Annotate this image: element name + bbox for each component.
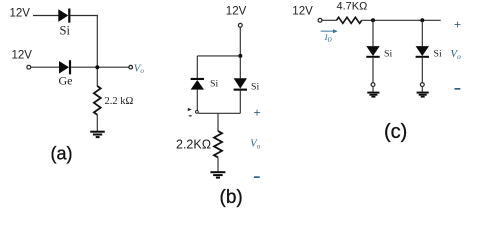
svg-text:(a): (a) — [51, 144, 73, 164]
svg-text:Si: Si — [210, 79, 218, 90]
svg-text:Vo: Vo — [250, 139, 260, 151]
svg-text:2.2 kΩ: 2.2 kΩ — [105, 96, 134, 107]
svg-text:+: + — [454, 18, 461, 32]
svg-text:(c): (c) — [384, 121, 407, 143]
svg-text:4.7KΩ: 4.7KΩ — [337, 1, 368, 13]
svg-text:12V: 12V — [292, 6, 313, 18]
svg-text:12V: 12V — [226, 6, 247, 18]
svg-text:Si: Si — [384, 48, 392, 59]
svg-text:+: + — [254, 106, 261, 120]
svg-text:Si: Si — [434, 48, 442, 59]
svg-text:12V: 12V — [12, 50, 33, 62]
svg-text:Ge: Ge — [59, 74, 73, 88]
svg-text:Si: Si — [251, 82, 259, 93]
svg-text:ID: ID — [324, 32, 333, 43]
svg-text:Vo: Vo — [134, 62, 145, 75]
svg-text:Vo: Vo — [450, 48, 461, 61]
svg-text:Si: Si — [60, 24, 71, 38]
svg-text:2.2KΩ: 2.2KΩ — [176, 138, 211, 152]
svg-text:12V: 12V — [10, 8, 31, 20]
svg-text:(b): (b) — [220, 187, 243, 208]
